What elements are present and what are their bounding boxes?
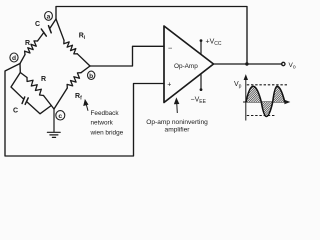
svg-text:Rf: Rf (75, 93, 82, 102)
svg-text:+VCC: +VCC (206, 39, 222, 48)
wire top feedback from node a to output (56, 7, 247, 65)
wire arm a to resistor Ri (56, 19, 64, 40)
svg-text:Ri: Ri (79, 32, 86, 41)
junction node output dot (245, 62, 248, 65)
wire resistor R parallel to node c (44, 96, 55, 110)
annotation arrow op-amp noninverting amplifier (175, 99, 179, 113)
svg-text:Op-amp noninverting: Op-amp noninverting (146, 119, 208, 126)
svg-text:R: R (25, 40, 30, 47)
svg-text:Op-Amp: Op-Amp (174, 63, 198, 70)
svg-text:−VEE: −VEE (191, 97, 207, 106)
wire node b to resistor Rf (81, 66, 90, 73)
terminal Vo open circle (282, 62, 285, 65)
resistor R parallel (arm d-c) (27, 78, 44, 96)
wire arm a to capacitor C (50, 19, 56, 29)
svg-text:+: + (167, 81, 171, 88)
svg-text:wien bridge: wien bridge (90, 130, 124, 137)
ground at node c (47, 109, 60, 137)
-VEE supply pin (200, 74, 203, 91)
resistor Rf (arm b-c) (67, 73, 81, 88)
wire op-amp output to Vo (214, 63, 283, 65)
+VCC supply pin (200, 39, 203, 54)
svg-text:a: a (47, 13, 51, 20)
wire node b to inverting input (90, 46, 164, 66)
node d circle (10, 53, 18, 62)
resistor Ri (arm a-b) (64, 40, 78, 54)
wire resistor R to node d (20, 55, 25, 64)
annotation arrow feedback network (84, 100, 88, 111)
wire node d to branch point (19, 64, 21, 73)
svg-text:Feedback: Feedback (91, 110, 120, 117)
svg-text:Vo: Vo (289, 62, 296, 71)
waveform dashed peak line bottom (247, 115, 276, 117)
svg-text:R: R (41, 76, 46, 83)
svg-text:C: C (35, 21, 40, 28)
node c circle (56, 111, 65, 120)
capacitor C series (arm a-d) (41, 26, 51, 36)
svg-text:b: b (89, 73, 93, 80)
waveform plot axes (243, 76, 289, 121)
wire resistor Rf to node c (54, 88, 67, 109)
capacitor C parallel (arm d-c) (22, 97, 28, 104)
svg-text:C: C (13, 107, 18, 114)
svg-text:−: − (168, 43, 173, 52)
wire noninverting input to node d via bottom (5, 64, 164, 157)
node b circle (88, 71, 95, 80)
wire branch point to resistor R parallel (20, 73, 27, 78)
svg-text:amplifier: amplifier (165, 127, 191, 134)
wire capacitor to resistor R series (38, 32, 44, 41)
wire capacitor branch lower (27, 102, 52, 114)
wire resistor Ri to node b (77, 54, 90, 66)
wire capacitor branch upper (11, 73, 23, 99)
svg-text:c: c (58, 113, 62, 120)
resistor R series (arm a-d) (25, 41, 38, 55)
svg-text:network: network (91, 120, 114, 127)
svg-text:Vp: Vp (234, 81, 242, 90)
waveform dashed peak line top (247, 84, 287, 86)
node a circle (45, 12, 53, 21)
op-amp U1 triangle (164, 26, 214, 103)
svg-text:d: d (12, 55, 16, 62)
